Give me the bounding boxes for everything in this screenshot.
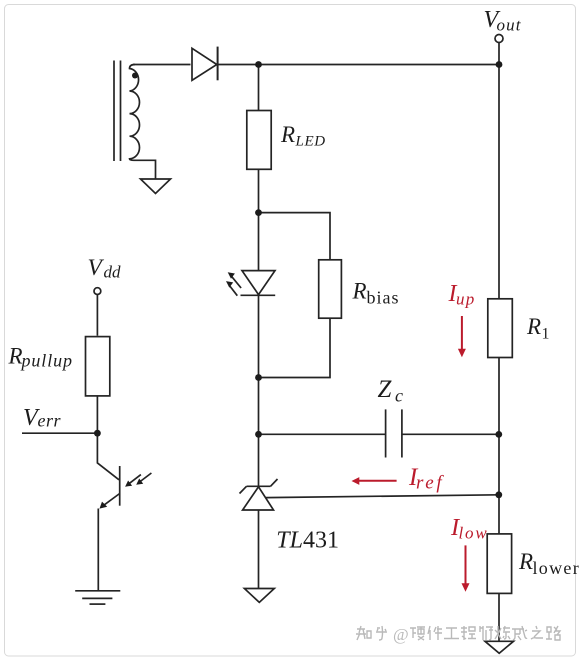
svg-text:up: up [456,290,476,309]
svg-text:dd: dd [104,263,122,282]
svg-text:ref: ref [416,473,444,494]
svg-text:pullup: pullup [20,351,73,371]
svg-text:R: R [8,344,23,369]
svg-text:R: R [280,122,295,147]
svg-text:c: c [395,386,403,406]
svg-text:bias: bias [367,288,400,308]
svg-text:out: out [497,16,522,35]
svg-text:low: low [459,524,489,543]
svg-text:lower: lower [533,558,580,578]
svg-text:R: R [526,314,541,339]
svg-text:Z: Z [378,376,393,403]
svg-text:R: R [518,549,533,574]
svg-text:err: err [38,411,62,431]
svg-text:TL431: TL431 [276,528,339,554]
svg-text:@: @ [393,625,409,644]
svg-text:LED: LED [295,134,326,150]
svg-text:R: R [352,279,367,304]
svg-text:1: 1 [542,326,550,343]
